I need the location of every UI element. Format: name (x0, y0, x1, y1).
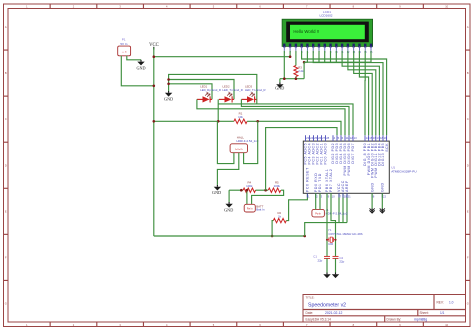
LCD display LCD1 module body (282, 19, 373, 46)
wire LCD data bundle 1 (302, 51, 387, 135)
svg-text:C: C (467, 117, 469, 121)
svg-text:G: G (5, 301, 7, 305)
LCD pin header pins 1-16 (283, 44, 373, 54)
svg-text:21: 21 (348, 195, 352, 199)
wire LED2 cathode rail (169, 80, 234, 100)
wire divider tap to MCU DIG2 (266, 128, 337, 191)
svg-text:GND: GND (212, 190, 221, 195)
svg-text:AREF: AREF (345, 180, 349, 192)
svg-text:PC6 RESET: PC6 RESET (306, 167, 310, 192)
junction R1 rail right (256, 120, 259, 123)
svg-text:5V In: 5V In (120, 42, 127, 46)
svg-text:Sheet:: Sheet: (420, 311, 429, 315)
title block frame (303, 295, 466, 323)
wire battery divider rail (229, 189, 243, 191)
wire VCC rail up to MCU power pins (305, 223, 347, 236)
svg-text:PD1 TXD: PD1 TXD (318, 173, 322, 192)
connector BATT box (244, 204, 255, 212)
svg-text:Date:: Date: (306, 311, 314, 315)
LED LED1 (197, 93, 212, 103)
crystal Y1 symbol (327, 237, 336, 242)
junction LCD pin1 gnd (283, 77, 286, 80)
wire R3 to ground line (295, 77, 297, 79)
wire MCU AVCC pin drop (342, 193, 344, 222)
svg-text:22p: 22p (317, 259, 322, 263)
svg-text:B: B (467, 71, 469, 75)
wire LCD pin3 to R3 (295, 51, 297, 66)
LED LED3 (241, 93, 256, 103)
wire MCU XTAL2 jog down (331, 193, 336, 256)
wire LED1 anode to MCU DIG4 (197, 99, 345, 135)
IC U1 ATMEGA328P-PU body (303, 141, 389, 193)
svg-text:16M: 16M (328, 243, 333, 246)
connector J1 box (312, 209, 325, 217)
wire net from LED2 anode to MCU DIG7 (218, 104, 353, 135)
wire VCC bottom rail (154, 235, 305, 237)
wire R5 right to BATT pin2 (252, 190, 284, 204)
svg-text:GND: GND (381, 182, 385, 192)
wire HALL pin3 signal to R1 right (244, 121, 258, 163)
ground symbol near P1 (140, 60, 142, 62)
wire gnd line drop (279, 79, 281, 83)
wire VCC to LCD pin2 (154, 51, 290, 57)
wire MCU VCC pin drop (338, 193, 340, 222)
junction divider left (240, 189, 243, 192)
wire BATT pin1 to divider rail (246, 190, 248, 204)
svg-text:HDR-F-2.54_1x3: HDR-F-2.54_1x3 (237, 139, 259, 143)
svg-text:LCD1602: LCD1602 (319, 13, 332, 17)
junction BATT pin1 on rail (246, 189, 249, 192)
wire LCD data bundle 5 (354, 51, 373, 135)
svg-text:C: C (5, 117, 7, 121)
svg-text:Drawn By:: Drawn By: (387, 318, 402, 322)
wire C2 to ground (335, 258, 337, 272)
resistor R3 contrast (294, 66, 298, 77)
wire pin5 line to pin16 (304, 51, 371, 62)
resistor R2 (273, 218, 286, 222)
svg-text:LED_Tn-Smd_R: LED_Tn-Smd_R (245, 88, 266, 92)
ground symbol under C1 (326, 273, 328, 275)
capacitor C1 (324, 255, 330, 257)
svg-text:B: B (5, 71, 7, 75)
svg-text:++ In: ++ In (122, 52, 128, 54)
wire R1 rail right to MCU DIG3 (247, 121, 341, 135)
junction VCC bottom rail right (303, 235, 306, 238)
wire R2 left to VCC bottom rail (272, 221, 273, 236)
ground symbol under C2 (335, 273, 337, 275)
junction R3 gnd (295, 77, 298, 80)
ground symbol MCU pin 8 (371, 209, 373, 214)
svg-text:10k: 10k (238, 115, 243, 119)
ground symbol below HALL (216, 185, 218, 187)
svg-text:G: G (467, 301, 469, 305)
svg-text:Speedometer v2: Speedometer v2 (308, 303, 346, 309)
connector HALL box (230, 144, 247, 153)
svg-text:10: 10 (332, 195, 336, 199)
wire P1 pin2 to GND (127, 56, 141, 60)
wire LCD data bundle 4 (348, 51, 376, 135)
svg-text:GND: GND (275, 86, 284, 91)
svg-text:22: 22 (383, 195, 387, 199)
junction LED rail low (167, 83, 170, 86)
svg-text:100k: 100k (246, 184, 253, 188)
junction LED rail mid (167, 78, 170, 81)
svg-text:100k: 100k (274, 184, 281, 188)
wire C1 to ground (326, 258, 328, 272)
svg-text:Pw In: Pw In (247, 209, 253, 211)
junction pin5 link (303, 61, 306, 64)
wire LCD pin8 stub to ground line (324, 51, 326, 62)
svg-text:E: E (5, 209, 7, 213)
wire LCD data bundle 2 (313, 51, 383, 135)
resistor R1 (234, 119, 247, 124)
svg-text:1k: 1k (278, 214, 282, 218)
wire LED3 anode to MCU DIG6 (241, 99, 349, 135)
junction crystal left (326, 239, 328, 241)
wire between R4 and R5 (256, 189, 269, 191)
wire MCU GND pin 22 (381, 193, 383, 208)
wire VCC vertical rail (153, 48, 155, 237)
wire P1 pin1 to VCC rail (121, 56, 154, 86)
wire MCU GND pin 8 (371, 193, 373, 208)
wire LCD data bundle 3 (342, 51, 379, 135)
wire J1 pin1 to MCU RXD (315, 193, 317, 209)
wire rail to ground drop (228, 190, 230, 202)
junction R2 on VCC bottom rail (271, 235, 274, 238)
svg-text:E: E (467, 209, 469, 213)
svg-text:22p: 22p (339, 259, 344, 263)
ground symbol MCU pin 22 (381, 209, 383, 214)
svg-text:28: 28 (326, 136, 330, 140)
svg-text:CRYSTAL 16MHz HC-49S: CRYSTAL 16MHz HC-49S (329, 232, 363, 236)
svg-text:PC0 ADC0: PC0 ADC0 (324, 143, 328, 165)
ground symbol below LCD (279, 82, 281, 84)
wire R2 right to MCU RESET (286, 193, 307, 220)
svg-text:Hello World !!: Hello World !! (293, 29, 319, 34)
junction divider mid (264, 189, 267, 192)
wire ground link vertical (303, 62, 305, 78)
svg-text:LED_Tn Smd_R: LED_Tn Smd_R (222, 88, 242, 92)
wire LED cathode rail top (169, 74, 257, 104)
wire HALL pin2 to ground (217, 153, 238, 185)
svg-text:GND: GND (224, 208, 233, 213)
wire MCU XTAL1 down (326, 193, 328, 256)
svg-text:1.0: 1.0 (449, 301, 454, 305)
connector P1 box (118, 46, 131, 56)
wire LCD pin1 to ground line (283, 51, 285, 79)
wire LED2 anode down to R1 rail (217, 99, 219, 121)
svg-text:LED_Dp Smd_R: LED_Dp Smd_R (200, 88, 221, 92)
svg-text:2x Pw Pk: 2x Pw Pk (235, 149, 243, 151)
wire LCD ground line (280, 78, 304, 80)
svg-text:A: A (467, 25, 469, 29)
svg-text:REV:: REV: (437, 301, 444, 305)
resistor R5 (268, 188, 281, 192)
svg-text:mpm88g: mpm88g (414, 318, 427, 322)
svg-text:2021-02-12: 2021-02-12 (325, 311, 342, 315)
svg-text:TITLE:: TITLE: (306, 296, 315, 300)
svg-text:Batt In: Batt In (256, 208, 265, 212)
junction VCC rail at R1 rail (153, 120, 156, 123)
ground symbol for LEDs (168, 91, 170, 93)
svg-text:2.2k: 2.2k (298, 69, 304, 73)
svg-text:A: A (5, 25, 7, 29)
wire LCD pin7 stub to ground line (318, 51, 320, 62)
svg-text:D: D (5, 163, 7, 167)
U1 top pins with numbers and names (304, 135, 389, 178)
wire LCD pin10 stub to ground line (335, 51, 337, 62)
junction R1 rail left (217, 120, 220, 123)
wire J1 pin2 to MCU TXD (319, 193, 321, 209)
svg-text:HDR-F-2.54_1x2: HDR-F-2.54_1x2 (326, 211, 348, 215)
svg-text:DIG7 PD7: DIG7 PD7 (351, 143, 355, 164)
junction VCC rail at LCD feed (153, 55, 156, 58)
junction on VCC rail at P1 feed (153, 85, 156, 88)
svg-text:GND: GND (370, 182, 374, 192)
wire MCU AREF pin drop (346, 193, 348, 222)
wire LCD data bundle 6 (359, 51, 368, 135)
wire HALL pin1 to VCC side of R1 (217, 121, 234, 163)
junction crystal right (335, 239, 337, 241)
ground symbol below divider (228, 202, 230, 204)
svg-text:PB7 XTAL2: PB7 XTAL2 (329, 169, 333, 192)
wire LCD pin9 stub to ground line (330, 51, 332, 62)
svg-text:D: D (467, 163, 469, 167)
svg-text:Pw In: Pw In (315, 214, 321, 216)
LED LED2 (219, 93, 234, 103)
capacitor C2 (333, 255, 339, 257)
svg-text:SCK: SCK (385, 143, 389, 152)
wire LCD data bundle 7 (364, 51, 366, 135)
svg-text:13: 13 (354, 136, 358, 140)
U1 bottom pins with numbers and names (306, 167, 387, 199)
svg-text:GND: GND (164, 97, 173, 102)
svg-text:ATMEGA328P-PU: ATMEGA328P-PU (391, 170, 416, 174)
wire VCC to R1 rail segment (154, 120, 234, 122)
svg-text:EasyEDA V5.3.14: EasyEDA V5.3.14 (306, 318, 332, 322)
svg-text:1/1: 1/1 (440, 311, 445, 315)
wire LCD pin5 and pin16 ground link (304, 51, 307, 62)
junction at LCD pin2 wire (289, 55, 292, 58)
resistor R4 (243, 188, 256, 192)
svg-text:11: 11 (346, 136, 349, 140)
wire LED1 cathode rail (169, 84, 212, 100)
svg-text:GND: GND (136, 65, 145, 70)
